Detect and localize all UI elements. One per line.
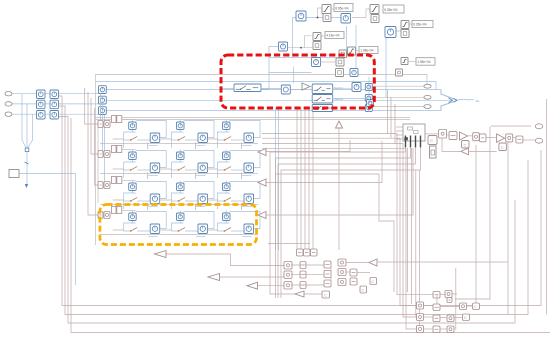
- wire trunk top gray: [96, 75, 428, 246]
- switch cell r2c2: [161, 150, 215, 180]
- br top 2: [445, 291, 452, 298]
- bc left col 2: [284, 271, 292, 279]
- grid port a r2c1: [98, 146, 136, 158]
- chain b5: [516, 136, 523, 143]
- grid port a r1c2: [0, 0, 1, 1]
- wire feedback rail 2: [59, 106, 529, 315]
- wire up arrow stem: [338, 128, 340, 250]
- wire bundle v4: [308, 108, 310, 249]
- wire red interior 5: [333, 88, 352, 90]
- chain goto C below2: [499, 143, 507, 151]
- chain block 1: [439, 130, 447, 139]
- wire chain fb right: [469, 150, 497, 152]
- wire bus-sel drop 1: [407, 148, 409, 292]
- bus selector pin 1: [405, 136, 407, 148]
- chain b2: [473, 133, 480, 141]
- rate block pair r3b: [50, 111, 59, 120]
- wire single drop 3: [104, 115, 106, 184]
- wire right v1: [455, 127, 490, 300]
- wire bus lower pair: [96, 117, 411, 119]
- wire mid bundle b: [88, 92, 98, 215]
- br wire v1: [436, 295, 438, 305]
- wire red interior h72: [269, 72, 312, 74]
- c4 junction dot: [300, 47, 301, 48]
- wire red interior sum-gray: [321, 61, 337, 63]
- top cluster1 sat: [322, 5, 331, 14]
- br wire h8: [454, 317, 463, 319]
- top cluster5 sat: [348, 47, 356, 55]
- gain column 3: [99, 107, 107, 115]
- merge arrowhead 2: [454, 98, 458, 102]
- bc pins block 2: [304, 249, 311, 256]
- wire bus in2: [12, 103, 100, 105]
- chain goto C a: [462, 141, 470, 149]
- wire loop row2: [266, 140, 350, 152]
- svg-text:C: C: [430, 138, 433, 143]
- bc mid col 3: [324, 280, 331, 287]
- wire red interior v: [368, 77, 370, 112]
- bus selector: [403, 124, 425, 141]
- wire mid bundle a: [85, 88, 98, 124]
- wire out line3: [106, 110, 441, 112]
- grid port a r2c3: [0, 0, 1, 1]
- sum block top: [312, 58, 321, 67]
- wire feedback rail 3: [59, 117, 516, 324]
- wire blue lattice v2: [346, 26, 348, 58]
- wire right v2: [475, 145, 477, 306]
- bc mid col 1: [324, 261, 331, 268]
- wire feedback rail 1: [59, 96, 542, 306]
- top cluster1 display: [334, 4, 353, 12]
- wire red interior 1: [222, 88, 234, 90]
- bc wire h3: [291, 284, 324, 286]
- gain column 1: [99, 86, 107, 94]
- wire bus in1: [12, 93, 100, 95]
- bc pins block 3: [311, 249, 318, 256]
- grid feedback triangle row2: [258, 149, 266, 156]
- merge node: [25, 148, 29, 152]
- wire blue lattice h5: [331, 8, 334, 10]
- wire blue lattice h2: [293, 17, 342, 19]
- chain gain R2: [497, 134, 505, 143]
- switch block D gray: [312, 105, 333, 112]
- svg-text:Switch: Switch: [262, 87, 270, 91]
- wire lattice n3: [321, 35, 325, 37]
- top cluster3 sat: [313, 33, 321, 41]
- top cluster2 display: [383, 5, 404, 13]
- wire fb tri2: [220, 276, 284, 278]
- bc triangle left low: [295, 291, 304, 297]
- bc circ col 3: [338, 279, 346, 286]
- wire gain drop: [293, 67, 295, 84]
- top cluster1 mem: [323, 14, 331, 22]
- switch block C: [312, 95, 333, 104]
- wire out stub3: [373, 106, 424, 108]
- wire bus lower pair 2: [96, 119, 411, 121]
- switch cell r4c1: [113, 211, 167, 237]
- bc goto 3: [370, 278, 377, 285]
- br col B2: [433, 315, 440, 322]
- wire mid bundle c: [91, 98, 98, 154]
- switch cell r1c1: [113, 120, 167, 150]
- grid port a r4c3: [0, 0, 1, 1]
- wire trunk top blue: [96, 82, 437, 91]
- lower feedback triangle a: [155, 251, 167, 258]
- small gray b: [336, 69, 344, 77]
- unit block col 4: [365, 105, 372, 112]
- svg-text:Switch2: Switch2: [334, 97, 344, 101]
- unit block col 2: [365, 84, 372, 91]
- wire fb tri1: [166, 254, 284, 266]
- switch cell r3c3: [207, 181, 261, 211]
- wire cross up2: [390, 97, 392, 138]
- switch cell r3c1: [113, 181, 167, 211]
- wire c4 junction: [288, 47, 314, 49]
- grid port a r4c2: [0, 0, 1, 1]
- svg-text:4.18e+04: 4.18e+04: [326, 34, 340, 38]
- unit block col 0: [367, 100, 374, 107]
- bc right col 1: [350, 269, 357, 276]
- br col A2: [417, 314, 424, 321]
- bc mid col 2: [324, 271, 331, 278]
- wire red interior 4: [310, 86, 312, 88]
- svg-text:6.35e+04: 6.35e+04: [384, 8, 398, 12]
- rate block pair r3a: [37, 111, 46, 120]
- bc goto 2: [360, 286, 367, 293]
- br wire h4: [440, 306, 460, 308]
- br right 1: [460, 303, 467, 310]
- bc wire h1: [291, 264, 324, 266]
- bc col2 block 2: [300, 271, 306, 278]
- bc col2 block 3: [300, 282, 306, 289]
- bc col2 block 1: [300, 262, 306, 269]
- wire bundle v1: [296, 108, 298, 249]
- wire sum drop: [269, 47, 279, 89]
- grid port a r1c1: [98, 116, 136, 128]
- unit block col 3: [365, 95, 372, 102]
- wire loop mid b: [268, 243, 310, 245]
- wire grid row line 2: [100, 173, 258, 175]
- wire red interior 2: [261, 88, 281, 90]
- bc wire h2: [291, 274, 324, 276]
- bc circ col 2: [338, 269, 346, 276]
- wire c4 riser: [305, 36, 312, 48]
- grid port a r4c1: [98, 207, 136, 219]
- wire out stub2: [373, 96, 424, 98]
- svg-text:1.98e+04: 1.98e+04: [417, 60, 431, 64]
- top cluster6 sat: [401, 58, 408, 65]
- top cluster2 mem: [371, 15, 379, 23]
- wire blue lattice v4: [385, 32, 387, 97]
- bc left col 3: [284, 282, 292, 290]
- lower feedback triangle b: [208, 274, 220, 281]
- br wire h3: [424, 328, 434, 330]
- wire right edge long: [546, 99, 548, 315]
- br col A3: [417, 326, 424, 333]
- wire bus-sel branch 1: [270, 148, 406, 294]
- br right 2: [473, 303, 480, 310]
- gain triangle: [302, 83, 310, 90]
- top cluster1 sum: [296, 11, 306, 21]
- wire right v3: [507, 142, 509, 315]
- chain wire 3: [486, 137, 497, 139]
- grid feedback triangle row3: [258, 179, 266, 186]
- arrowhead down: [25, 184, 28, 188]
- input port 3: [5, 112, 12, 116]
- wire grid row line 3: [100, 204, 258, 206]
- br wire top: [440, 294, 445, 296]
- wire chain from bus-sel: [425, 133, 439, 135]
- br wire top2: [452, 293, 457, 295]
- wire red interior 6: [333, 98, 366, 100]
- wire bundle v5: [312, 110, 314, 249]
- wire cross h1: [262, 134, 433, 295]
- bus selector pin 3: [415, 136, 417, 148]
- wire bundle blue v7: [278, 108, 280, 250]
- top cluster3 mem: [313, 42, 321, 50]
- bc triangle left up: [369, 259, 377, 266]
- rate block pair r2a: [37, 100, 46, 109]
- merge line 3: [28, 114, 33, 148]
- svg-text:C: C: [464, 143, 467, 148]
- wire red interior 3: [290, 89, 302, 91]
- wire bus-sel drop 3: [415, 170, 417, 316]
- chain wire 4: [523, 139, 535, 141]
- top cluster6 display: [416, 58, 435, 65]
- top cluster6 mem: [396, 69, 403, 76]
- switch cell r4c2: [161, 211, 215, 237]
- svg-text:8.95e+04: 8.95e+04: [335, 7, 349, 11]
- signal squiggle: [458, 98, 474, 101]
- bus selector pin 4: [420, 136, 422, 148]
- chain triangle left: [461, 148, 469, 155]
- bc right col 2: [350, 278, 357, 285]
- svg-text:6.35e+04: 6.35e+04: [413, 23, 427, 27]
- wire bc tri feed: [377, 261, 509, 263]
- wire bundle v2: [300, 108, 302, 249]
- wire single drop 2: [102, 104, 104, 152]
- small gray a: [336, 58, 344, 66]
- wire cross up3: [394, 104, 396, 144]
- merge line 2: [26, 104, 28, 149]
- chain wire 2: [468, 135, 473, 137]
- top cluster1 sum2: [341, 14, 351, 24]
- gain column 2: [99, 96, 107, 104]
- br col C2: [447, 326, 454, 333]
- wire bus in3: [12, 113, 102, 115]
- integrator icon block: [281, 85, 290, 94]
- wire cross h4: [262, 149, 417, 329]
- wire bus-sel drop 2: [411, 148, 413, 304]
- wire cross up1: [387, 90, 389, 134]
- red dashed highlight: [221, 55, 374, 108]
- bc wire h4: [346, 262, 369, 264]
- wire blue lattice h4: [396, 24, 412, 31]
- wire N riser: [318, 8, 322, 18]
- wire grid row line 1: [100, 143, 258, 145]
- wire right v4: [455, 268, 457, 330]
- switch cell r1c2: [161, 120, 215, 150]
- br col B1: [433, 304, 440, 311]
- wire bus-sel branch 2: [276, 148, 411, 298]
- chain gain R: [460, 132, 468, 140]
- wire out stub1: [373, 85, 424, 87]
- top cluster2 sat: [370, 5, 379, 14]
- wire mid bundle d: [95, 108, 98, 185]
- small gray c: [339, 50, 347, 58]
- top cluster2b sum: [385, 27, 396, 38]
- wire feedback rail 4: [71, 118, 550, 333]
- br wire h2: [424, 316, 434, 318]
- output port 1: [424, 84, 431, 88]
- wire inbox link: [19, 174, 76, 286]
- grid feedback triangle row4: [258, 212, 266, 219]
- chain out ellipse 1: [535, 124, 542, 129]
- wire fb tri3: [258, 285, 285, 287]
- wire loop row3: [266, 141, 382, 183]
- bc pins block 1: [297, 249, 304, 256]
- merge line 1: [22, 94, 27, 149]
- junction dot: [317, 17, 318, 18]
- lower feedback triangle c: [247, 282, 258, 289]
- br wire h5: [440, 317, 447, 319]
- bus selector pin 2: [410, 136, 412, 148]
- grid port a r3c3: [0, 0, 1, 1]
- wire blue lattice h3: [352, 9, 370, 18]
- wire single drop 1: [100, 94, 102, 123]
- chain b4: [506, 134, 513, 142]
- top cluster5 display: [359, 47, 378, 54]
- wire bundle v3: [304, 108, 306, 249]
- top cluster2b mem: [401, 30, 409, 38]
- yellow dashed highlight: [100, 205, 257, 245]
- svg-text:C: C: [501, 145, 504, 150]
- wire bus-sel drop 4: [419, 170, 421, 328]
- output port 2: [424, 95, 431, 99]
- wire loop row4: [266, 148, 413, 215]
- br wire h6: [440, 328, 447, 330]
- wire bus-sel branch 4: [281, 148, 421, 298]
- svg-text:1.08e+04: 1.08e+04: [360, 49, 374, 53]
- bc circ col 1: [338, 259, 346, 266]
- wire bundle blue v6: [275, 108, 277, 250]
- top cluster3 display: [325, 32, 344, 39]
- switch cell r4c3: [207, 211, 261, 237]
- chain wire: [447, 134, 449, 136]
- output port 3: [424, 105, 431, 109]
- input port 2: [5, 102, 12, 106]
- bc wire v2: [345, 271, 350, 273]
- merge arrowhead 1: [449, 98, 453, 103]
- switch block B: [312, 84, 333, 94]
- chain wire 5: [513, 137, 516, 139]
- grid port a r1c3: [0, 0, 1, 1]
- rate block pair r1b: [50, 90, 59, 99]
- wire out line2: [106, 99, 452, 101]
- top cluster2b sat: [401, 21, 409, 29]
- top cluster4 sum: [279, 42, 288, 51]
- wire bus-sel branch 3: [278, 148, 416, 298]
- bc left col 1: [284, 262, 292, 270]
- wire cluster6: [408, 61, 416, 63]
- mux funnel bottom: [441, 101, 457, 111]
- br col A1: [417, 302, 424, 309]
- chain b3: [480, 134, 487, 142]
- br top 3: [447, 298, 452, 303]
- svg-text:Switch1: Switch1: [334, 86, 344, 90]
- bus selector input stubs: [396, 127, 403, 139]
- goto block C: [428, 136, 437, 145]
- switch cell r2c3: [207, 150, 261, 180]
- wire mux-down stem: [26, 152, 28, 184]
- wire loop mid a: [276, 174, 394, 292]
- wire cross h3: [262, 144, 417, 317]
- br col B3: [433, 326, 440, 333]
- grid port a r3c2: [0, 0, 1, 1]
- mux funnel top: [441, 90, 457, 101]
- unit block mid: [352, 83, 361, 92]
- br wire h7: [467, 305, 473, 307]
- scope tall block: [430, 146, 437, 158]
- wire blue lattice h1: [269, 57, 347, 59]
- chain block 2: [449, 132, 457, 140]
- switch block A: [234, 84, 261, 92]
- switch cell r3c2: [161, 181, 215, 211]
- wire blue lattice v3: [355, 25, 357, 69]
- grid port a r2c2: [0, 0, 1, 1]
- br wire h1: [424, 305, 434, 307]
- top cluster2b display: [412, 21, 433, 28]
- switch cell r1c3: [207, 120, 261, 150]
- wire lattice n5: [356, 50, 360, 52]
- rate block pair r2b: [50, 100, 59, 109]
- bc wire h6: [304, 293, 322, 295]
- br right 3: [463, 314, 470, 321]
- switch cell r2c1: [113, 150, 167, 180]
- bc goto 1: [322, 291, 330, 298]
- wire out line1: [106, 89, 441, 91]
- bc wire h5: [357, 272, 370, 274]
- br top 1: [433, 292, 440, 299]
- svg-text:<s>: <s>: [475, 99, 480, 103]
- wire chain top: [491, 125, 531, 127]
- input port 1: [5, 92, 12, 96]
- br col C1: [447, 315, 454, 322]
- wire cross h2: [262, 138, 417, 305]
- constant box left: [9, 170, 19, 178]
- chain out ellipse 2: [535, 138, 542, 143]
- grid port a r3c1: [98, 177, 136, 189]
- delay tick: [25, 162, 29, 164]
- chain feedback v: [442, 138, 461, 151]
- wire grid row line 4: [100, 234, 258, 236]
- bc wire v1: [330, 265, 332, 284]
- up arrowhead below red box: [336, 121, 343, 128]
- wire blue lattice v1: [292, 18, 294, 58]
- unit block up: [350, 69, 358, 77]
- rate block pair r1a: [37, 90, 46, 99]
